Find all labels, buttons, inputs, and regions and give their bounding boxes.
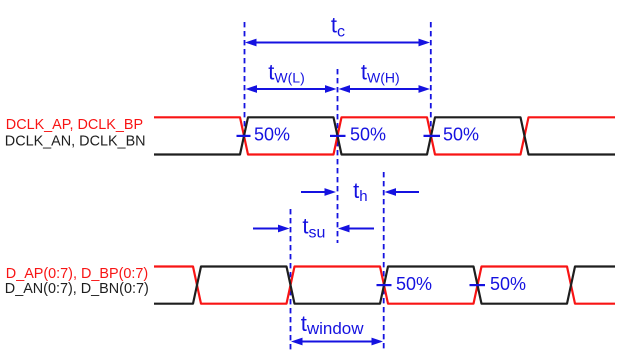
wire clock DCLK_AN/DCLK_BN (black waveform) (154, 117, 615, 154)
50% tick at data edge 4 (470, 284, 486, 286)
svg-text:50%: 50% (396, 274, 432, 294)
svg-text:50%: 50% (490, 274, 526, 294)
dashed guide line at clock edge 3 (x=430.8) (430, 22, 432, 139)
dashed guide line at clock edge 2 (x=337.5) (337, 69, 339, 243)
wire clock DCLK_AP/DCLK_BP (red waveform) (154, 117, 615, 154)
svg-text:DCLK_AN, DCLK_BN: DCLK_AN, DCLK_BN (5, 133, 146, 149)
dashed guide line at clock edge 1 (x=244.5) (244, 22, 246, 140)
svg-text:D_AP(0:7), D_BP(0:7): D_AP(0:7), D_BP(0:7) (6, 266, 148, 282)
dimension arrow tc (245, 39, 430, 47)
dimension arrow tW(L) (246, 85, 337, 93)
svg-text:50%: 50% (254, 125, 290, 145)
wire data D_AP/D_BP (red waveform) (154, 267, 615, 304)
svg-text:DCLK_AP, DCLK_BP: DCLK_AP, DCLK_BP (6, 117, 143, 133)
dimension arrow th (left pointer) (301, 188, 336, 196)
dashed guide line at data edge left of window (x=290.5) (290, 209, 292, 352)
dimension arrow tW(H) (339, 85, 431, 93)
50% tick at clock edge 1 (237, 135, 251, 137)
50% tick at clock edge 2 (330, 135, 346, 137)
50% tick at data edge 3 (377, 284, 392, 286)
50% tick at clock edge 3 (424, 135, 441, 137)
svg-text:50%: 50% (443, 125, 479, 145)
dimension arrow twindow (291, 338, 383, 346)
dimension arrow tsu (left pointer) (253, 225, 290, 233)
dashed guide line at data edge right of window (x=383.7) (383, 172, 385, 352)
svg-text:50%: 50% (350, 125, 386, 145)
svg-text:D_AN(0:7), D_BN(0:7): D_AN(0:7), D_BN(0:7) (5, 281, 149, 297)
dimension arrow tsu (right pointer) (338, 225, 374, 233)
wire data D_AN/D_BN (black waveform) (154, 267, 615, 304)
dimension arrow th (right pointer) (385, 188, 420, 196)
